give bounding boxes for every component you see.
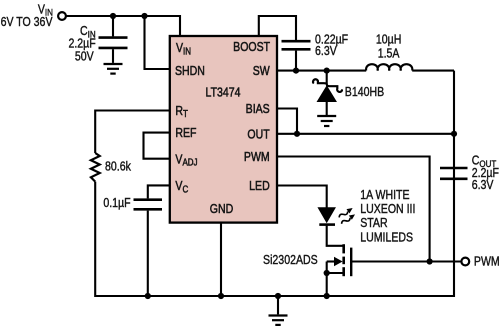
node top rail / SHDN — [141, 13, 147, 19]
svg-text:PWM: PWM — [474, 255, 500, 269]
node OUT / BIAS — [294, 131, 300, 137]
svg-text:6V TO 36V: 6V TO 36V — [1, 15, 53, 29]
wire LED pin run — [277, 186, 327, 208]
wire B140 branch top — [326, 71, 328, 85]
svg-text:OUT: OUT — [247, 126, 270, 141]
svg-text:LUXEON III: LUXEON III — [360, 202, 415, 216]
node rail / ground — [275, 293, 281, 299]
svg-text:LUMILEDS: LUMILEDS — [360, 231, 413, 245]
transistor Q1 Si2302ADS — [327, 244, 352, 276]
svg-text:1A WHITE: 1A WHITE — [360, 188, 410, 202]
svg-text:REF: REF — [175, 125, 196, 140]
resistor R1 80.6k — [91, 153, 100, 182]
ground (B140HB) — [317, 116, 336, 126]
capacitor COUT plates — [440, 168, 468, 179]
svg-text:6.3V: 6.3V — [315, 44, 337, 58]
node top rail / CIN — [110, 13, 116, 19]
svg-text:Si2302ADS: Si2302ADS — [263, 253, 318, 267]
svg-text:1.5A: 1.5A — [378, 47, 400, 61]
node OUT / right rail — [451, 131, 457, 137]
wire BOOST to C2 — [259, 16, 296, 40]
svg-text:LT3474: LT3474 — [206, 84, 241, 99]
wire inductor to right rail — [412, 70, 454, 72]
node source/body — [324, 270, 330, 276]
wire top rail VIN to IC — [66, 16, 180, 36]
svg-text:2.2µF: 2.2µF — [68, 37, 95, 51]
capacitor CIN plates — [99, 38, 128, 48]
node SW / C2 — [293, 68, 299, 74]
terminal PWM — [461, 258, 469, 266]
wire LED cathode to drain — [327, 226, 344, 246]
svg-text:10µH: 10µH — [376, 33, 401, 47]
wire PWM pin run — [277, 157, 430, 262]
svg-text:SHDN: SHDN — [175, 63, 205, 78]
ground (main) — [269, 316, 288, 325]
ground (CIN) — [104, 64, 123, 74]
node SW / B140 — [324, 68, 330, 74]
wire SHDN branch — [145, 16, 171, 69]
node rail / GND — [218, 293, 224, 299]
capacitor C2 0.22uF plates — [282, 41, 311, 49]
wire GND stub — [220, 223, 222, 296]
svg-text:PWM: PWM — [244, 149, 270, 164]
wire C2 bottom to SW — [295, 51, 297, 71]
IC U1 LT3474 — [170, 36, 277, 223]
wire REF-VADJ loop — [144, 133, 171, 159]
wire SW run — [277, 70, 366, 72]
terminal VIN — [58, 12, 66, 20]
capacitor C4 0.1uF plates — [134, 200, 163, 210]
svg-text:BOOST: BOOST — [233, 39, 271, 54]
wire mosfet body/source — [327, 262, 344, 274]
wire VC branch — [148, 185, 170, 198]
wire RT branch — [95, 111, 170, 154]
wire B140 to ground — [326, 101, 328, 115]
wire CIN stub top — [112, 16, 114, 36]
wire right rail + bottom rail — [95, 71, 454, 296]
wire 0.1uF to rail — [147, 211, 149, 296]
diode D1 B140HB schottky — [313, 79, 342, 101]
node gate / PWM — [427, 258, 433, 264]
inductor L1 10uH — [366, 64, 412, 70]
node dots — [110, 13, 457, 299]
svg-text:B140HB: B140HB — [345, 85, 385, 99]
svg-text:STAR: STAR — [360, 216, 387, 230]
wire source to rail — [326, 273, 328, 296]
LED D2 luxeon — [318, 206, 356, 226]
svg-text:GND: GND — [210, 201, 234, 216]
svg-text:6.3V: 6.3V — [472, 178, 494, 192]
wire CIN stub bottom — [112, 49, 114, 63]
wire main ground stub — [277, 296, 279, 314]
svg-text:0.1µF: 0.1µF — [103, 196, 130, 210]
svg-text:50V: 50V — [75, 50, 94, 64]
svg-text:SW: SW — [253, 63, 271, 78]
wire BIAS to OUT — [277, 109, 297, 134]
node rail / 0.1uF — [145, 293, 151, 299]
wire gate to PWM terminal — [351, 260, 461, 262]
node rail / source — [324, 293, 330, 299]
svg-text:LED: LED — [249, 178, 270, 193]
svg-text:BIAS: BIAS — [246, 101, 270, 116]
wire OUT line — [277, 133, 454, 135]
svg-text:80.6k: 80.6k — [105, 159, 131, 173]
light arrows — [338, 206, 354, 220]
